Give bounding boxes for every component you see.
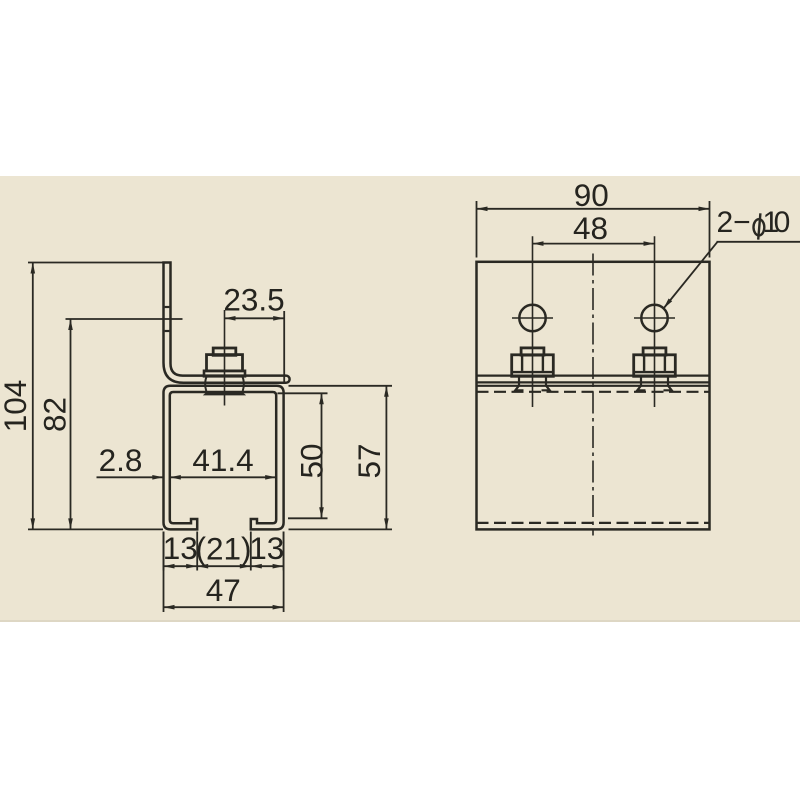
svg-text:90: 90 [574, 177, 609, 213]
svg-text:0: 0 [774, 206, 791, 239]
svg-text:47: 47 [206, 572, 241, 608]
svg-text:13: 13 [163, 530, 198, 566]
svg-text:23.5: 23.5 [223, 282, 284, 318]
svg-text:57: 57 [351, 443, 387, 478]
svg-text:41.4: 41.4 [192, 442, 253, 478]
svg-text:50: 50 [294, 443, 330, 478]
svg-text:2−: 2− [717, 206, 751, 239]
svg-text:2.8: 2.8 [99, 442, 143, 478]
svg-text:(21): (21) [195, 531, 251, 567]
svg-text:82: 82 [37, 397, 73, 432]
svg-text:13: 13 [249, 530, 284, 566]
svg-text:104: 104 [0, 380, 33, 433]
svg-text:48: 48 [573, 210, 608, 246]
